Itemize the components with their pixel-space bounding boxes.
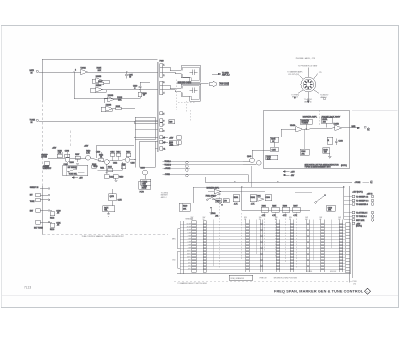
below Q110 parts [106,165,108,173]
svg-text:SW: SW [289,217,292,219]
capacitor C210 and R210 [107,82,150,99]
switch wafer column 3F [289,220,291,273]
svg-text:U210B: U210B [108,95,114,97]
inner vertical drops in matrix [214,220,332,270]
feedback row [98,169,123,171]
svg-text:TUNE: TUNE [30,201,36,203]
svg-text:R106: R106 [70,162,74,164]
svg-text:SPAN/DIV: SPAN/DIV [185,218,194,221]
svg-text:AMPL 10: AMPL 10 [304,100,311,103]
svg-text:SW: SW [338,217,341,219]
left rail dashed continuation [41,100,43,186]
svg-text:R90: R90 [169,122,172,124]
Q103 [65,157,70,162]
tall box x135-157 (two stacked rects) [135,117,158,167]
op-amp U210B [104,95,123,103]
svg-text:+15V (DCPL): +15V (DCPL) [352,192,363,194]
svg-text:R306: R306 [283,206,287,208]
svg-text:MARKER AMPL: MARKER AMPL [207,186,220,189]
svg-text:R305: R305 [272,206,276,208]
MKR IN input terminal [30,70,81,74]
switch wafer column 2R [245,220,247,273]
svg-text:R215: R215 [116,106,120,108]
wire TUNE B rail [163,164,257,166]
switch wafer column 1R [192,221,197,273]
svg-text:10: 10 [143,95,145,97]
op-amp U205B with feedback box [92,76,109,85]
svg-text:.1: .1 [134,87,135,89]
test point circle [86,156,91,161]
filter can 2 outline [181,84,201,101]
dashed drops into matrix [219,191,296,224]
svg-text:J75: J75 [319,72,322,74]
resistor row [242,209,310,211]
svg-text:P170: P170 [140,192,144,194]
svg-text:SHOWN IN 1 MHz POSITION: SHOWN IN 1 MHz POSITION [274,278,298,280]
svg-text:.05: .05 [57,224,59,226]
svg-text:1: 1 [163,65,164,67]
svg-text:7: 7 [163,125,164,127]
svg-text:U205B: U205B [96,76,102,78]
svg-text:U301: U301 [257,195,261,197]
switch wafer column 3R [275,220,277,273]
svg-text:U245B: U245B [334,123,340,125]
+15V rail [96,145,134,147]
ground under arm [210,209,212,213]
svg-text:TO ATTEN A 5: TO ATTEN A 5 [356,212,367,215]
-15V arrow [73,177,78,179]
svg-text:R115: R115 [108,167,112,169]
svg-text:Q240: Q240 [247,156,251,158]
svg-text:2: 2 [75,70,76,72]
svg-text:TO SWEEP A 2: TO SWEEP A 2 [356,196,368,199]
svg-text:TYPES & MEASUREMENT INFO: TYPES & MEASUREMENT INFO [305,166,332,169]
Q110 [104,160,109,165]
svg-text:R304: R304 [262,206,266,208]
svg-text:5: 5 [371,182,372,184]
output arrow [349,127,358,129]
svg-text:ADJ: ADJ [323,121,326,124]
small parts inside [270,137,279,142]
long rails to switch [193,177,373,203]
switch wafer column 4F [320,220,322,273]
svg-text:ATTEN: ATTEN [41,155,47,158]
svg-text:C248: C248 [339,140,343,142]
svg-text:4: 4 [163,93,164,95]
wire -TUNE rail [163,174,249,176]
column ladders [192,220,343,273]
svg-text:MARKER AMPL: MARKER AMPL [303,116,318,119]
svg-text:R301: R301 [234,197,238,199]
op-amp U213B [101,104,135,111]
switch wafer column 2F [259,220,261,273]
op-amp U203A [75,66,158,74]
svg-text:U210A: U210A [96,84,102,87]
svg-text:VOL R75 (18): VOL R75 (18) [288,74,299,76]
wire riser [204,177,206,182]
TO MARKER note left of matrix top [161,192,169,198]
wire TUNE A rail [163,161,250,163]
arm 2 [214,200,222,205]
RC groups [50,209,52,211]
svg-text:SWP MKR: SWP MKR [356,220,365,222]
faint extension line [352,109,398,111]
can 2 entry [163,85,181,92]
svg-text:PHONE JACK, J75: PHONE JACK, J75 [296,57,316,60]
svg-text:C103: C103 [65,151,69,153]
svg-text:P40 COAX: P40 COAX [220,83,229,86]
svg-text:C304: C304 [266,197,270,199]
svg-text:(DCPL): (DCPL) [341,165,347,167]
wire +TUNE stub [163,167,190,169]
svg-text:SW: SW [244,217,247,219]
svg-text:20 M: 20 M [187,227,191,229]
center vertical feed [241,187,243,210]
svg-text:TO MARKER SELECT SWITCH S301: TO MARKER SELECT SWITCH S301 [177,282,207,285]
svg-text:R207: R207 [98,81,102,83]
svg-text:5: 5 [163,114,164,116]
lower cluster [104,175,109,178]
feedback loop rails [74,72,133,99]
svg-text:TUNE B: TUNE B [165,165,172,167]
svg-text:SW 302: SW 302 [330,271,336,273]
svg-text:FREQ SPAN, MARKER GEN & TUNE C: FREQ SPAN, MARKER GEN & TUNE CONTROL [274,290,364,294]
svg-text:SW: SW [275,217,278,219]
svg-text:J70: J70 [353,283,356,285]
lower connector boxes [160,112,163,115]
svg-text:2: 2 [163,75,164,77]
svg-text:SW: SW [305,217,308,219]
matrix bottom labels [177,271,336,285]
svg-text:C175: C175 [118,199,122,201]
svg-text:TO (MKR): TO (MKR) [161,192,169,194]
svg-text:C110: C110 [96,152,100,154]
svg-text:.1 M: .1 M [187,248,191,250]
svg-text:R310: R310 [216,201,220,203]
svg-text:R180: R180 [183,206,187,208]
svg-text:U203A: U203A [81,66,87,69]
rows group 1 [352,195,354,197]
svg-text:1F: 1F [203,219,205,221]
svg-text:SW: SW [203,217,206,219]
switch wafer column 5R [338,220,340,273]
left vertical rail [41,59,43,100]
svg-text:TO TUNE A 8: TO TUNE A 8 [356,215,367,218]
wire assembly left edge [192,187,194,203]
svg-text:R123: R123 [50,229,54,231]
svg-text:.001: .001 [215,215,218,217]
svg-text:470: 470 [224,201,227,203]
svg-text:3: 3 [163,82,164,84]
matrix row labels [187,224,192,271]
svg-text:6: 6 [368,129,369,131]
svg-text:.001: .001 [170,144,173,146]
second wafer triangle [258,197,265,201]
assembly bottom dashed [174,280,352,282]
boxes row above [233,195,239,202]
svg-text:.2 M: .2 M [187,245,191,247]
svg-text:5 M: 5 M [188,233,191,235]
svg-text:(DCPL): (DCPL) [356,226,362,228]
svg-text:EXT TUNE: EXT TUNE [34,227,43,229]
svg-text:MHz: MHz [172,239,176,241]
svg-text:3F: 3F [289,219,291,221]
svg-text:PWR: PWR [143,186,148,188]
svg-text:U245A: U245A [290,124,296,127]
svg-text:1 M: 1 M [188,239,191,241]
wire switch assembly top edge [193,186,344,188]
svg-text:SW 301: SW 301 [306,271,312,273]
svg-text:TUNE A: TUNE A [165,160,172,163]
upper connector body [160,64,163,78]
svg-text:R111: R111 [100,168,104,170]
matrix frame [177,221,351,274]
line between cans to coax [176,81,229,87]
svg-text:+TUNE: +TUNE [165,168,172,170]
+15V arrow rows near tall box [163,136,182,145]
svg-text:7L13: 7L13 [24,285,31,289]
Q114 [125,157,130,162]
svg-text:6: 6 [163,121,164,123]
svg-text:TO PHONE PLUG VIEW: TO PHONE PLUG VIEW [298,65,318,67]
svg-text:S120: S120 [93,166,97,168]
input transistors Q240 Q241 [250,158,255,163]
svg-text:SW: SW [319,217,322,219]
can 1 entry [163,67,181,73]
svg-text:50 M: 50 M [187,224,191,226]
left group brackets [178,229,180,268]
cap inside can 1 [192,69,194,75]
resistor boxes right of connector column [169,120,179,147]
matrix right connector ladder [346,219,353,278]
svg-text:C245: C245 [272,150,276,152]
dashed shield grounds [177,79,196,122]
svg-text:R160: R160 [141,167,145,169]
short dashed vertical left chain [70,131,72,149]
svg-text:P210: P210 [160,60,164,62]
left small box R180 [179,203,190,211]
arrow TO MKR [212,72,230,76]
svg-text:PER DIV: PER DIV [260,278,268,280]
op-amp U210A with feedback [91,84,158,92]
svg-text:11: 11 [163,149,165,151]
svg-text:620: 620 [324,152,327,154]
title diamond [365,288,371,294]
faint rule under title [2,295,398,297]
svg-text:.5 M: .5 M [187,242,191,244]
svg-text:kHz: kHz [172,259,175,261]
svg-text:+TUNE: +TUNE [355,182,362,184]
ladder rungs at rows [192,223,343,270]
svg-text:R302: R302 [251,197,255,199]
svg-text:10: 10 [129,76,131,78]
switch wafer column 4R [306,220,308,273]
coax connector symbol [210,81,217,86]
svg-text:PHONE JACK ASSY: PHONE JACK ASSY [322,116,341,119]
svg-text:FREQ SPAN/DIV: FREQ SPAN/DIV [231,277,245,280]
filter can 1 outline [181,66,201,83]
cap inside can 2 [192,87,194,93]
matrix column headers [191,217,342,221]
svg-text:SWEEP IN: SWEEP IN [30,187,39,189]
svg-text:HOLDOFF: HOLDOFF [43,168,51,170]
svg-text:TO MARKER 4: TO MARKER 4 [356,203,368,206]
svg-text:TUNING: TUNING [301,123,308,125]
svg-text:AMPL 1,3: AMPL 1,3 [222,74,230,77]
svg-text:SW: SW [259,217,262,219]
switch wafer column 1F [203,221,206,273]
amp chain [300,119,312,124]
svg-text:-TUNE: -TUNE [165,174,171,176]
wire +TUNE long rail [205,181,352,183]
svg-text:R122: R122 [50,217,54,219]
dashed wafer separator [43,234,168,236]
svg-text:R307: R307 [293,206,297,208]
svg-text:2F: 2F [259,219,261,221]
svg-text:TUNE SEL: TUNE SEL [69,174,78,176]
svg-text:U213B: U213B [106,104,112,106]
row wires [180,224,345,269]
svg-text:TUNE CONTROL WAFERS VIEWED F: TUNE CONTROL WAFERS VIEWED FROM FRONT [82,235,125,238]
svg-text:.05: .05 [57,213,59,215]
svg-text:4F: 4F [319,219,321,221]
svg-text:R119: R119 [119,177,123,179]
svg-text:.001: .001 [301,153,304,155]
rows group 2 [352,211,354,213]
right arm [316,196,325,203]
svg-text:10 M: 10 M [187,230,191,232]
svg-text:C116: C116 [131,162,135,164]
svg-text:Q175: Q175 [110,196,114,198]
+15/-15 arrows under marker box [283,171,296,177]
svg-text:SEL: SEL [104,210,107,212]
svg-text:TO SWEEP B 3: TO SWEEP B 3 [356,201,368,203]
TUNE IN input [30,120,158,124]
svg-text:C112: C112 [113,162,117,164]
stage wires [70,158,86,159]
svg-text:.001: .001 [328,210,331,212]
svg-text:8: 8 [163,131,164,133]
top rail [42,58,158,60]
pot transistor in tall box [141,167,151,189]
capacitor C205 [126,72,128,74]
svg-text:2 M: 2 M [188,236,191,238]
